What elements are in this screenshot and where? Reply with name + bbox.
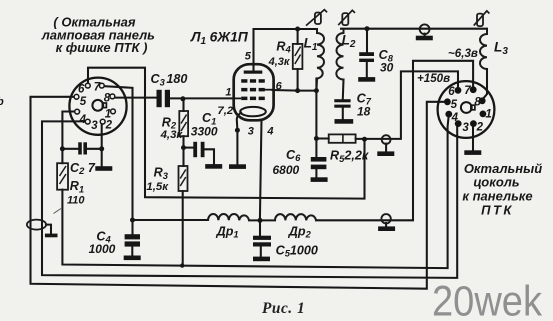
ground: C5	[253, 257, 270, 262]
wire: left socket pin8 to C3	[115, 97, 157, 99]
svg-text:Рис. 1: Рис. 1	[262, 300, 305, 317]
node: anode/R4/L1	[295, 27, 300, 32]
choke Dr2	[275, 214, 316, 220]
inductor L3 (bumps left)	[480, 29, 487, 69]
wire: screen node down through R5-left node to C6	[315, 79, 317, 158]
svg-text:4: 4	[451, 112, 459, 124]
ground: R5 terminal	[377, 151, 394, 156]
ground: C2/pin2	[95, 166, 112, 171]
wire: left socket pin2 down to ground	[101, 124, 103, 166]
wire: C2 right lead to pin2 drop	[87, 148, 102, 150]
svg-text:4: 4	[79, 114, 87, 126]
svg-text:6: 6	[78, 84, 85, 96]
tube grid rows (dashes)	[241, 79, 265, 100]
svg-text:18: 18	[357, 105, 371, 119]
svg-text:6800: 6800	[273, 163, 300, 177]
wire: C2 left lead	[62, 148, 78, 150]
wire: C6 bottom lead	[315, 169, 317, 177]
wire: tube cathode lead down to ground	[237, 113, 241, 165]
LEFT OCTAL SOCKET	[69, 78, 126, 135]
wire: right socket pin2 down to ground	[472, 126, 474, 150]
wire: C1 right lead to ground	[205, 149, 215, 164]
node: C2 left / R1 / pin4	[60, 146, 65, 151]
svg-text:6: 6	[276, 80, 283, 92]
RIGHT OCTAL SOCKET	[438, 81, 495, 138]
right socket pin dots	[444, 86, 486, 127]
svg-text:3: 3	[248, 126, 254, 138]
svg-text:С51000: С51000	[276, 243, 318, 258]
svg-text:30: 30	[380, 60, 394, 74]
node: grid / C3 / R2	[180, 96, 185, 101]
ground: C8	[358, 77, 375, 82]
resistor R3	[179, 166, 188, 191]
tube anode plate	[244, 71, 263, 74]
svg-text:~6,3в: ~6,3в	[448, 47, 478, 60]
wire: ~6.3v line from right socket pin7 over and down to heater rail	[413, 61, 473, 220]
wire: heater rail right segment (Dr2 to corner)	[316, 219, 413, 221]
left socket pin rings	[74, 83, 115, 124]
wire: C7 bottom to its ground bar	[342, 108, 344, 119]
inductor L1 (bumps right)	[317, 29, 324, 79]
svg-text:110: 110	[67, 194, 85, 206]
TUBE L1 6Zh1P	[234, 64, 274, 120]
wire: R2 bottom to C1/R3 node	[182, 136, 184, 166]
TEXT ANNOTATIONS	[41, 15, 543, 259]
svg-text:8: 8	[104, 92, 111, 104]
svg-text:ПТК: ПТК	[481, 203, 514, 218]
resistor R4	[293, 44, 303, 69]
svg-text:3: 3	[91, 120, 98, 132]
svg-text:20wek: 20wek	[432, 278, 542, 321]
ground: top terminal	[416, 36, 433, 41]
wire: tube pin4 heater lead down to C5 node	[260, 120, 262, 221]
ground: cable shield	[45, 234, 58, 238]
tube cathode	[240, 107, 266, 116]
wire: heater rail left segment (C4 node to Dr1)	[133, 219, 209, 221]
inductor L2 (bumps left)	[336, 29, 343, 80]
wire: left socket pin4 to R1/C2 node	[62, 112, 79, 149]
wire: C4 leads	[131, 220, 133, 256]
wire: tube pin6 to screen node	[273, 89, 298, 92]
wire: C5 leads	[259, 220, 262, 256]
svg-text:7: 7	[94, 82, 101, 94]
capacitor C7 18	[334, 99, 350, 108]
node: heater / C5 / tube pin4	[258, 218, 263, 223]
resistor R5	[329, 134, 356, 142]
wire: R5 terminal stub	[385, 144, 387, 152]
tube envelope	[234, 64, 274, 120]
node: C2 right / pin2	[99, 146, 104, 151]
capacitor C3 180 (horizontal)	[157, 90, 171, 107]
wire: heater rail middle segment with C5 node	[249, 219, 275, 221]
svg-text:5: 5	[451, 99, 458, 111]
capacitor C5 1000	[253, 236, 271, 247]
svg-text:b: b	[0, 96, 4, 108]
trimmer core of L3	[474, 11, 490, 26]
trimmer core of L2	[338, 10, 355, 25]
GROUND BARS	[45, 36, 481, 262]
node: R2 bottom / C1 / R3	[181, 145, 186, 150]
right socket pin numbers	[448, 85, 492, 134]
svg-text:6: 6	[448, 86, 455, 98]
svg-text:1: 1	[225, 87, 231, 99]
node: R5 left	[314, 136, 319, 141]
svg-text:R52,2к: R52,2к	[330, 149, 369, 164]
wire: anode top rail from tube pin5 to L1	[254, 29, 318, 71]
svg-text:+150в: +150в	[417, 72, 450, 85]
svg-text:4,3к: 4,3к	[268, 56, 291, 68]
wire: L2 top to C8 node to terminal to L3	[341, 28, 487, 30]
ground: C6	[311, 177, 328, 182]
ground: C1	[205, 164, 222, 169]
svg-text:4,3к: 4,3к	[160, 129, 184, 141]
node: R3 / bus1	[180, 263, 184, 267]
terminal: +150v / R5	[382, 135, 391, 144]
capacitor C8 30	[359, 52, 374, 62]
svg-text:3300: 3300	[191, 125, 218, 139]
wire: left socket pin5 to bus3, up to right socket pin5 lead	[31, 97, 446, 289]
TRIMMER CORE ARROWS	[306, 10, 489, 27]
svg-text:3: 3	[462, 122, 469, 134]
capacitor C6 6800	[311, 157, 327, 169]
svg-text:7: 7	[464, 85, 471, 97]
wire: left socket pin3 to bus2, up to right socket pin3	[42, 121, 457, 278]
tube pin number labels	[225, 51, 282, 138]
capacitor C1 3300 (horizontal)	[193, 142, 204, 157]
COILS	[208, 29, 487, 221]
svg-text:к фишке ПТК ): к фишке ПТК )	[56, 40, 148, 55]
svg-text:1000: 1000	[89, 242, 116, 256]
node: cathode lead joint	[235, 128, 240, 133]
wire: R4 bottom to screen node	[298, 69, 317, 91]
svg-text:4: 4	[266, 126, 273, 138]
svg-text:5: 5	[80, 96, 87, 108]
right socket outline	[438, 81, 495, 138]
svg-text:1: 1	[485, 109, 491, 121]
tube grid lead pin1 (inside)	[234, 97, 242, 99]
scan artifact: stray pointer stroke near C4 label	[54, 209, 62, 214]
ground: C4	[124, 256, 141, 261]
capacitor C4 1000	[125, 234, 140, 246]
svg-text:2: 2	[476, 121, 484, 133]
resistor R1	[57, 163, 68, 190]
wire: C1 left lead	[184, 147, 194, 149]
ground: right socket pin2	[464, 150, 481, 155]
node: heater / C4 / pin7	[130, 218, 135, 223]
left socket outline	[69, 78, 126, 135]
node: L1 bottom/C6 line	[314, 88, 319, 93]
terminal: top rail	[420, 24, 430, 34]
right socket key	[461, 102, 472, 113]
left socket key	[92, 100, 103, 111]
wire: L1 bottom lead	[315, 79, 318, 91]
wire: R5 left lead	[316, 137, 328, 139]
node: L2/C8 top	[365, 26, 370, 31]
wire: grid node to R2	[182, 99, 184, 111]
note: right plug caption	[462, 161, 542, 217]
note: header (left panel caption)	[41, 15, 155, 55]
svg-text:5: 5	[245, 51, 252, 63]
TERMINALS (circle clamps)	[381, 24, 429, 223]
svg-text:цоколь: цоколь	[473, 175, 519, 190]
wire: shield ellipse lead to ground	[46, 225, 51, 234]
terminal: heater rail	[381, 214, 390, 223]
ground: Dr2 terminal	[378, 226, 395, 231]
svg-text:к панельке: к панельке	[462, 188, 532, 203]
svg-text:Л1 6Ж1П: Л1 6Ж1П	[190, 28, 249, 46]
wire: left socket pin7 over and down to C4 node	[104, 86, 133, 220]
wire: top terminal stub	[424, 34, 426, 36]
left socket pin numbers	[78, 82, 113, 132]
wire: R4 top lead	[297, 29, 299, 44]
wire: R5 right lead to terminal, corner up, +150v line to right socket pin6	[356, 71, 458, 138]
ground: C7	[335, 119, 354, 124]
ground: cathode	[229, 164, 246, 169]
svg-text:1,5к: 1,5к	[146, 181, 169, 193]
svg-text:2: 2	[105, 119, 113, 131]
resistor R2	[179, 111, 188, 136]
svg-text:С3180: С3180	[151, 72, 188, 87]
wire: C8 bottom lead	[366, 62, 368, 77]
wire: R1 bottom to bus1, up right side to right socket pin4	[62, 115, 448, 269]
node: screen/R4/L1 bottom	[295, 88, 300, 93]
choke Dr1	[208, 214, 249, 220]
wire: L2 bottom lead to C7	[342, 80, 345, 100]
svg-text:8: 8	[474, 96, 481, 108]
wire: R3 bottom through line A down to bus1	[182, 191, 184, 266]
CAPACITORS (plates)	[78, 52, 374, 246]
wire: left socket pin6 up, over, down to +150 rail (line A), up to R5 terminal	[88, 68, 365, 199]
trimmer core of L1	[306, 10, 327, 26]
wire: C3 to grid node to tube pin1	[170, 97, 234, 99]
tube screen lead pin6 (inside)	[262, 89, 274, 91]
wire: Dr2 terminal stub	[385, 223, 387, 226]
RESISTORS	[57, 44, 356, 191]
svg-text:7,2: 7,2	[217, 105, 233, 117]
shield ellipse around cable wires	[27, 220, 46, 230]
wire: C8 top lead	[366, 29, 368, 53]
wire: L3 bottom lead to right socket pin8	[482, 69, 487, 100]
node: R5 right / line A riser	[362, 137, 367, 142]
wire: R1 top lead	[61, 149, 63, 163]
capacitor C2 7 (horizontal)	[78, 142, 87, 154]
